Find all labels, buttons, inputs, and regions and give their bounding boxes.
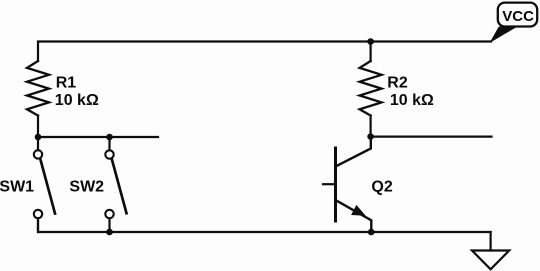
transistor Q2 emitter lead [336,200,372,232]
switch SW2 lever [112,159,127,214]
svg-text:R2: R2 [387,75,408,92]
svg-text:Q2: Q2 [371,178,392,195]
resistor R1 [27,61,49,116]
ground [472,251,509,270]
transistor Q2 base bar [334,148,337,221]
svg-text:VCC: VCC [502,8,534,25]
switch SW2 top contact [105,150,113,158]
VCC flag box [498,3,537,27]
wire SW2 bottom lead [108,218,110,232]
svg-text:10 kΩ: 10 kΩ [390,92,434,109]
switch SW2 bottom contact [105,210,113,218]
resistor R2 [360,61,382,116]
transistor Q2 base stub [323,183,336,185]
wire top rail VCC [38,42,491,62]
node dot SW2 bottom rail [106,229,113,236]
svg-text:SW2: SW2 [69,178,104,195]
wire mid right stub [371,136,492,138]
node dot top rail R2 [367,38,374,45]
transistor Q2 collector lead [336,137,371,167]
switch SW1 top contact [34,150,42,158]
wire bottom rail [38,218,491,232]
wire SW2 top lead [108,137,110,150]
svg-text:R1: R1 [56,75,77,92]
node dot R2 bottom [367,133,374,140]
node dot Q2 emitter rail [368,229,375,236]
switch SW1 bottom contact [34,210,42,218]
switch SW1 lever [40,159,55,214]
wire SW1 top lead [37,137,39,150]
wire mid left row [38,136,158,138]
svg-text:SW1: SW1 [0,178,34,195]
wire R1 bottom vertical [37,116,39,138]
svg-text:10 kΩ: 10 kΩ [55,92,99,109]
wire R2 bottom vertical [370,116,372,137]
node dot R1 bottom [35,134,42,141]
node dot SW2 top [106,134,113,141]
transistor Q2 emitter arrow [351,205,366,216]
VCC flag tail [490,27,518,44]
wire R2 top vertical [370,42,372,62]
wire SW1 bottom lead [37,218,39,232]
wire ground stem [490,232,492,251]
